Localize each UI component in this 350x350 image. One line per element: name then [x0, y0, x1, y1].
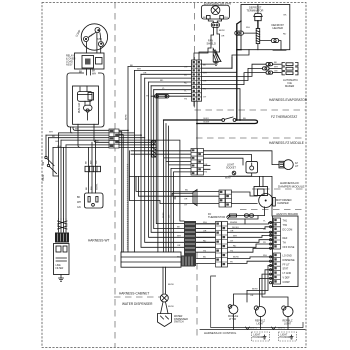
svg-text:BK/W: BK/W: [225, 178, 232, 180]
svg-text:WH: WH: [75, 129, 79, 131]
compressor terminal COM: [95, 28, 100, 33]
svg-text:BU/W: BU/W: [168, 306, 175, 308]
wire plug drops: [89, 140, 96, 193]
wire grid-d feed 7: [174, 172, 192, 252]
capacitor bottom circle: [86, 109, 89, 112]
wire filter to ground: [60, 275, 62, 279]
svg-text:RD: RD: [283, 34, 287, 36]
wire fz thermostat feed vertical: [196, 101, 198, 148]
wire elbow down left: [129, 151, 219, 204]
wire grid continuation row 7: [119, 144, 154, 146]
svg-text:WH: WH: [203, 222, 207, 224]
svg-text:WH: WH: [203, 73, 207, 75]
svg-text:WH: WH: [91, 160, 93, 164]
wire second drop: [231, 58, 233, 69]
wire grid bottom exits down: [193, 101, 195, 106]
wire grid-d feed 2: [131, 153, 191, 155]
plug ground hole: [92, 203, 95, 206]
svg-text:TN: TN: [230, 250, 233, 252]
light socket box: [246, 161, 258, 173]
wire damper grid to motor: [232, 192, 258, 196]
jazz stub connector circles: [270, 221, 272, 223]
wire long elbow to jazz: [129, 176, 272, 216]
noise filter box: [54, 244, 70, 275]
evaporator fan box: [201, 5, 229, 19]
svg-text:HOUSING: HOUSING: [280, 337, 291, 339]
svg-text:BU/W: BU/W: [204, 122, 211, 124]
svg-text:STAT: STAT: [283, 268, 289, 271]
connector black block: [55, 233, 69, 243]
svg-text:DC COM: DC COM: [283, 228, 293, 231]
svg-text:LT GND: LT GND: [283, 272, 292, 275]
wire vertical long 1: [58, 133, 60, 219]
svg-text:BU: BU: [243, 118, 246, 120]
svg-text:OR: OR: [203, 231, 207, 233]
water dispenser switch: [158, 314, 172, 327]
svg-text:HEATER: HEATER: [273, 26, 283, 30]
svg-text:V DEF: V DEF: [283, 277, 291, 280]
svg-text:DAMPER: DAMPER: [278, 201, 289, 205]
svg-text:BK/W: BK/W: [252, 289, 259, 291]
svg-text:WH: WH: [77, 201, 81, 204]
wire grid continuation row 5: [119, 139, 149, 141]
wire block to grid rows: [197, 224, 216, 263]
wire center vertical v3: [141, 74, 215, 247]
ice maker connector row 3: [266, 71, 273, 74]
harness boundary dashed line horizontal y=138: [196, 137, 306, 139]
wire grid continuation row 4: [119, 137, 145, 139]
svg-text:HOUSING: HOUSING: [253, 337, 264, 339]
grid-d bottom pin circles: [192, 169, 194, 171]
svg-text:WH: WH: [57, 146, 61, 148]
compressor internal wire: [89, 32, 102, 40]
wire center vertical v1: [127, 67, 129, 252]
wire defrost box bottom exits: [237, 49, 241, 51]
fan shield triangle: [213, 49, 221, 62]
svg-text:ASSY: ASSY: [66, 64, 73, 67]
svg-text:STR: STR: [97, 38, 102, 41]
harness boundary dashed line horizontal y=189: [252, 188, 306, 190]
motorized damper circle: [259, 194, 273, 208]
svg-text:DISPENSE: DISPENSE: [283, 259, 295, 262]
wire grid continuation row 1: [119, 129, 128, 131]
wire oval drop: [157, 98, 159, 252]
connector block damper (2-col grid): [219, 190, 232, 207]
wire oval to heater links: [243, 5, 281, 50]
wire bus line 2: [59, 132, 110, 134]
svg-text:HARNESS-WT: HARNESS-WT: [88, 239, 109, 243]
damper housing box: [254, 187, 268, 196]
wire center vertical v4: [145, 78, 215, 242]
harness boundary dashed line horizontal y=297: [114, 296, 160, 298]
svg-text:WH/YL: WH/YL: [250, 328, 258, 330]
wire vertical long 4: [65, 145, 67, 219]
svg-text:BU/O: BU/O: [204, 118, 210, 120]
fz light bulb small mark: [232, 171, 236, 175]
ice maker pin brackets: [282, 63, 298, 66]
compressor compartment outer box: [67, 73, 104, 127]
wire bottom ground bus: [200, 329, 305, 331]
wire grid right exit to icemaker rows: [202, 64, 267, 76]
svg-text:WH/BK: WH/BK: [230, 222, 238, 224]
wire drop join: [53, 147, 59, 176]
svg-text:LIGHT: LIGHT: [254, 334, 261, 336]
defrost heater hatched resistor: [256, 28, 260, 43]
svg-text:GY: GY: [184, 205, 188, 207]
wire enclosure drop 2: [78, 127, 80, 147]
wire grid right exits up: [202, 62, 217, 65]
wire to light socket: [204, 155, 252, 162]
svg-text:GY: GY: [230, 241, 234, 243]
svg-text:WH/YL: WH/YL: [278, 328, 286, 330]
wire nest h9 with inline connector: [151, 95, 191, 97]
dispenser dark connector: [181, 256, 195, 267]
svg-text:BK/W: BK/W: [43, 174, 45, 181]
damper right tab: [273, 198, 276, 207]
harness boundary dashed line vertical x=197 bottom: [196, 252, 198, 340]
wire nest h5: [149, 81, 192, 83]
wire enclosure drop 1: [71, 127, 72, 133]
overload small box: [96, 58, 103, 65]
wire socket down: [229, 173, 252, 176]
fan motor circle with blades: [211, 6, 220, 15]
svg-text:OR: OR: [184, 67, 188, 69]
wire center vertical v5: [149, 82, 215, 237]
wire center vertical v7: [154, 90, 215, 229]
defrost loop box: [241, 5, 290, 50]
wire inner box bottom stubs: [78, 124, 94, 127]
wire loop drop: [244, 219, 246, 224]
wire relay to enclosure: [87, 69, 91, 75]
arrow chevrons on bus: [246, 327, 276, 330]
svg-text:HARNESS-FZ MODULE: HARNESS-FZ MODULE: [269, 141, 304, 145]
svg-text:BK/W: BK/W: [163, 211, 165, 218]
plug prong slot left: [88, 197, 90, 203]
relay-overload box: [75, 53, 105, 69]
svg-text:WH: WH: [49, 131, 53, 133]
svg-text:GN: GN: [77, 206, 81, 209]
svg-text:OR: OR: [184, 199, 188, 201]
wire damper feed 1: [136, 176, 219, 191]
svg-text:TH1: TH1: [283, 220, 288, 223]
fz thermostat switch: [222, 119, 225, 122]
dark harness connector column: [184, 221, 196, 266]
wire thick drop to thermostat: [237, 21, 241, 120]
wire grid-d feed 4: [166, 124, 191, 253]
light housing box 1: [252, 332, 270, 341]
svg-text:GY: GY: [263, 229, 267, 231]
svg-text:COMP: COMP: [283, 281, 291, 284]
svg-text:OR: OR: [177, 245, 181, 247]
fz light bulb base: [279, 161, 284, 168]
wire wedge feeds: [172, 193, 193, 199]
wire grid right exit long down: [202, 89, 241, 120]
wedge connector: [193, 190, 197, 206]
wire bus line 8: [53, 146, 109, 148]
wire fz thermostat right loop: [197, 120, 258, 124]
wire stubs with labels: [204, 166, 211, 170]
svg-text:FF LIT: FF LIT: [283, 263, 291, 266]
compressor compartment inner box: [73, 86, 99, 124]
svg-text:LIGHT: LIGHT: [281, 334, 288, 336]
fuse element F1: [152, 141, 157, 157]
harness boundary dashed line horizontal y=209.5: [240, 209, 306, 211]
svg-text:WH: WH: [274, 66, 278, 68]
refr light bulb 1: [256, 307, 266, 317]
wire gray pair near dash 1: [119, 132, 122, 253]
svg-text:RUN CAP: RUN CAP: [78, 102, 81, 113]
sheet border frame: [42, 3, 306, 348]
harness-ff-control outline: [211, 276, 303, 328]
wire shield ground: [214, 62, 218, 66]
svg-text:GN/YL: GN/YL: [97, 183, 99, 190]
wire grid continuation row 3: [119, 134, 141, 136]
svg-text:HARNESS-CABINET: HARNESS-CABINET: [119, 292, 149, 296]
svg-text:TN: TN: [184, 99, 187, 101]
wire capacitor leads: [80, 86, 90, 120]
wire bus line 7: [66, 144, 109, 146]
wire grid continuation row 6: [119, 141, 151, 143]
svg-text:BK/W: BK/W: [126, 113, 128, 120]
power plug P1: [85, 193, 104, 208]
svg-text:HARNESS-EVAPORATOR: HARNESS-EVAPORATOR: [269, 98, 308, 102]
svg-text:WH: WH: [92, 73, 96, 76]
svg-text:OR: OR: [169, 214, 171, 218]
wire fz thermostat top: [164, 119, 222, 121]
fan terminal right: [220, 16, 224, 20]
svg-text:SHIELD: SHIELD: [207, 42, 216, 46]
door switch 1: [45, 156, 47, 158]
capacitor oval: [84, 105, 93, 111]
svg-text:RD: RD: [203, 241, 207, 243]
wire grid-d feed 3: [164, 120, 191, 252]
svg-text:WH: WH: [91, 186, 93, 190]
inline connector above plug: [85, 166, 101, 171]
svg-text:OR: OR: [250, 295, 254, 297]
wire terminator to heater thick: [257, 21, 259, 29]
svg-text:BU/W: BU/W: [168, 284, 175, 286]
connector block ff control (2-col grid): [216, 222, 228, 268]
svg-text:BU/W: BU/W: [233, 257, 240, 259]
wire nest h8: [156, 93, 191, 95]
wire vertical long 3: [63, 147, 65, 219]
wire fan or down to grid: [199, 52, 220, 60]
wire damper down: [264, 207, 266, 216]
wire nest h6: [151, 85, 191, 87]
wire dispenser drop pair: [163, 267, 166, 294]
wire nest h1: [128, 66, 192, 68]
wire icemaker top line: [273, 49, 286, 51]
junction dot thermostat: [236, 119, 238, 121]
twisted strip texture: [127, 164, 129, 250]
wire grid-d feed 5: [169, 126, 192, 252]
wire bus line 1: [73, 127, 109, 130]
wire bus line 3: [46, 134, 109, 136]
svg-text:FZ THERMOSTAT: FZ THERMOSTAT: [271, 115, 297, 119]
svg-text:DEF: DEF: [283, 237, 288, 240]
svg-text:OR: OR: [221, 36, 225, 38]
jazz pin column: [274, 218, 281, 249]
svg-text:HARNESS-FF CONTROL: HARNESS-FF CONTROL: [204, 331, 237, 335]
wire heater bottom to box: [257, 44, 259, 50]
ground symbol: [59, 278, 64, 281]
wire bus line 5: [61, 139, 109, 141]
wire nest h3: [141, 73, 192, 75]
relay inner box: [82, 56, 94, 69]
svg-text:DAMPER MODULE: DAMPER MODULE: [278, 185, 305, 189]
dispenser housing box: [121, 252, 181, 267]
wire nest h2: [134, 69, 191, 71]
jazz pc board connector outline: [273, 216, 299, 287]
junction dots: [127, 130, 129, 132]
svg-text:GY: GY: [203, 97, 207, 99]
door switch 2: [47, 164, 49, 166]
filter inner detail: [56, 246, 61, 252]
svg-text:WH: WH: [224, 17, 228, 19]
fan connector oval: [211, 23, 219, 28]
wire grid right exit to defrost: [202, 58, 237, 73]
wire compressor to relay: [87, 33, 101, 53]
plug prong slot right: [96, 197, 98, 203]
capacitor terminal box: [88, 93, 94, 101]
wire grid-d feed 1: [131, 150, 191, 152]
compressor terminal RUN: [84, 37, 89, 42]
svg-text:LT SW: LT SW: [229, 318, 237, 321]
svg-text:SOCKET: SOCKET: [226, 166, 236, 169]
wire switch drop 1: [45, 135, 47, 156]
svg-text:BK: BK: [77, 196, 81, 199]
svg-text:OFF FUSE: OFF FUSE: [283, 246, 295, 249]
svg-text:SWITCH: SWITCH: [174, 321, 184, 324]
wire grid c to jazz rows: [228, 223, 274, 225]
run capacitor rounded box: [78, 92, 93, 102]
wire fz module row3 stub: [204, 158, 244, 165]
wire vertical long 2: [60, 140, 62, 219]
refr light bulb 2: [283, 307, 293, 317]
harness boundary dashed line horizontal y=110: [195, 109, 307, 111]
connector block evaporator (2-col grid): [192, 60, 202, 101]
svg-text:TN: TN: [204, 172, 207, 174]
wire twisted section: [59, 219, 67, 232]
svg-text:FILTER: FILTER: [56, 268, 64, 270]
wire fz module right long: [204, 151, 280, 165]
connector oval left: [235, 31, 244, 35]
light housing box 2: [279, 332, 297, 341]
svg-text:WH: WH: [263, 255, 267, 257]
svg-text:BU: BU: [203, 257, 206, 259]
ice maker connector row 2: [263, 67, 270, 70]
svg-text:LINE: LINE: [56, 265, 62, 267]
ff thermistor loop: [228, 216, 265, 220]
svg-text:TN: TN: [203, 250, 206, 252]
wire lamps to ground line: [234, 291, 289, 330]
wire long elbow right: [149, 140, 184, 221]
svg-text:OR: OR: [204, 164, 208, 166]
fz light bulb globe: [283, 160, 293, 170]
ice maker connector row 1: [266, 63, 273, 66]
svg-text:WH: WH: [233, 236, 237, 238]
svg-text:JAZZ PC BOARD: JAZZ PC BOARD: [276, 212, 298, 216]
svg-text:TH2: TH2: [283, 224, 288, 227]
connector oval right: [271, 39, 278, 43]
svg-text:BK/W: BK/W: [219, 30, 226, 32]
compressor motor circle: [81, 24, 107, 50]
harness boundary dashed line vertical x=115: [114, 2, 116, 348]
compressor terminal STR: [98, 42, 103, 47]
svg-text:GN: GN: [96, 160, 98, 164]
wire jazz bottom feeds: [247, 266, 273, 291]
wire center vertical v8: [156, 94, 215, 224]
svg-text:WH: WH: [177, 235, 181, 237]
wire fan bk/w down to grid: [194, 48, 211, 60]
svg-text:DK BU: DK BU: [232, 227, 239, 229]
svg-text:THERMISTOR: THERMISTOR: [208, 215, 225, 219]
inline connector oval: [155, 95, 170, 98]
svg-text:LO GND: LO GND: [283, 255, 292, 258]
mid connector grid (left of dash): [109, 129, 119, 148]
svg-text:MAKER: MAKER: [285, 84, 294, 88]
wire bus line 4: [49, 137, 110, 139]
connector block fz module (2-col grid): [191, 149, 204, 176]
svg-text:BU: BU: [184, 75, 187, 77]
svg-text:TERMINATOR: TERMINATOR: [247, 9, 264, 13]
svg-text:WATER DISPENSER: WATER DISPENSER: [122, 302, 153, 306]
wire nest h7: [154, 89, 192, 91]
svg-text:RD: RD: [233, 246, 237, 248]
wire switch drop 2: [48, 138, 50, 164]
water tube circle: [160, 294, 168, 302]
wire gray pair near dash 2: [119, 135, 123, 253]
wire damper top feeds: [260, 176, 264, 186]
svg-text:TH: TH: [283, 242, 286, 245]
harness boundary dashed line vertical x=194.5 top: [194, 2, 196, 110]
wire center vertical v2: [133, 70, 135, 252]
module light bulb: [229, 305, 238, 314]
wire grid-d feed 6: [171, 168, 191, 252]
svg-text:WH: WH: [246, 27, 250, 29]
svg-text:RD: RD: [184, 83, 188, 85]
wire fan to connector: [208, 19, 221, 23]
wire grid continuation row 8: [119, 146, 156, 148]
wire nest h4: [145, 77, 192, 79]
svg-text:BU: BU: [185, 190, 188, 192]
svg-text:GN: GN: [274, 71, 278, 73]
wire center vertical v6: [151, 86, 215, 233]
svg-text:OR: OR: [230, 231, 234, 233]
wire damper feed 2: [139, 176, 220, 196]
defrost terminator component: [254, 13, 262, 16]
wire circle down: [161, 302, 169, 314]
fan terminal left: [207, 16, 211, 20]
wire bus line 6: [94, 127, 109, 142]
wire grid continuation row 2: [119, 132, 134, 134]
thermistor inline connector: [245, 214, 249, 217]
wire fan connector down: [211, 28, 220, 53]
